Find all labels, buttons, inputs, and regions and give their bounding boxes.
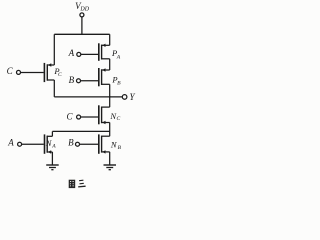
svg-text:B: B (117, 81, 121, 87)
svg-text:B: B (69, 75, 75, 85)
svg-text:C: C (67, 111, 74, 121)
svg-text:A: A (68, 48, 75, 58)
svg-text:C: C (7, 66, 14, 76)
svg-text:B: B (118, 145, 122, 151)
svg-text:Y: Y (130, 92, 136, 102)
svg-text:C: C (117, 116, 121, 122)
svg-text:B: B (68, 137, 74, 147)
svg-text:A: A (116, 54, 121, 60)
svg-text:A: A (7, 138, 14, 148)
svg-text:C: C (58, 72, 62, 78)
svg-text:DD: DD (79, 7, 89, 13)
svg-text:A: A (51, 144, 56, 150)
